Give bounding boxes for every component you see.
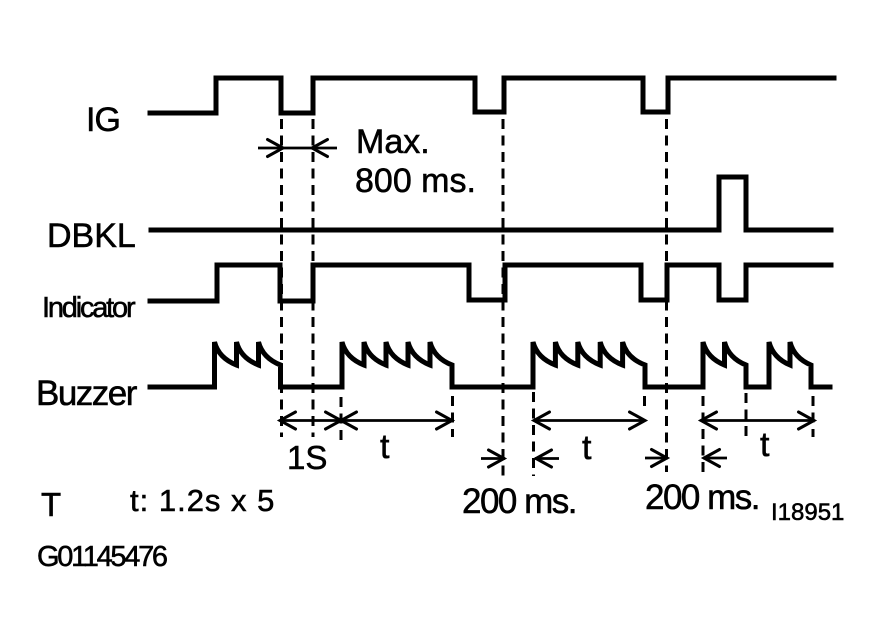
svg-text:800 ms.: 800 ms. xyxy=(355,162,476,200)
node dashed line K x=813 xyxy=(812,396,815,437)
node dashed line A x=281 xyxy=(280,119,283,437)
svg-text:G01145476: G01145476 xyxy=(37,541,167,573)
svg-text:t: t xyxy=(582,429,592,467)
node dashed line I x=703 xyxy=(702,396,705,476)
node dashed line G x=534 xyxy=(532,392,535,476)
arrow t span 1 xyxy=(341,419,452,422)
svg-text:I18951: I18951 xyxy=(771,499,844,526)
svg-text:DBKL: DBKL xyxy=(47,217,136,255)
svg-text:1S: 1S xyxy=(287,439,327,476)
svg-text:t: t xyxy=(760,426,770,464)
svg-text:Buzzer: Buzzer xyxy=(36,374,138,413)
node dashed line B x=313 xyxy=(312,119,315,437)
svg-text:t: 1.2s x 5: t: 1.2s x 5 xyxy=(130,483,275,518)
node dashed line E x=341 xyxy=(340,397,343,443)
svg-text:T: T xyxy=(41,486,61,523)
wire Buzzer trace xyxy=(150,342,830,387)
svg-text:200 ms.: 200 ms. xyxy=(462,482,576,521)
svg-text:t: t xyxy=(380,428,390,466)
node dashed line D x=666 xyxy=(665,119,668,472)
svg-text:Indicator: Indicator xyxy=(42,292,136,324)
svg-text:IG: IG xyxy=(86,101,120,139)
arrow Max 800 ms measure xyxy=(258,147,337,150)
arrow 200 ms measure 1 xyxy=(481,457,505,460)
wire Indicator trace xyxy=(150,265,831,301)
arrow 200 ms measure 2 xyxy=(645,457,668,460)
node dashed line H x=645 xyxy=(643,396,646,412)
node dashed line J x=746 xyxy=(745,393,748,438)
svg-text:Max.: Max. xyxy=(356,123,430,161)
node dashed line C x=503 xyxy=(502,119,505,477)
arrow 1S span xyxy=(280,419,341,422)
node dashed line F x=452 xyxy=(451,396,454,437)
arrow t span 2 xyxy=(534,419,645,422)
wire IG trace xyxy=(150,78,834,113)
wire DBKL trace xyxy=(151,177,831,230)
svg-text:200 ms.: 200 ms. xyxy=(645,478,759,517)
arrow t span 3 xyxy=(701,419,814,422)
